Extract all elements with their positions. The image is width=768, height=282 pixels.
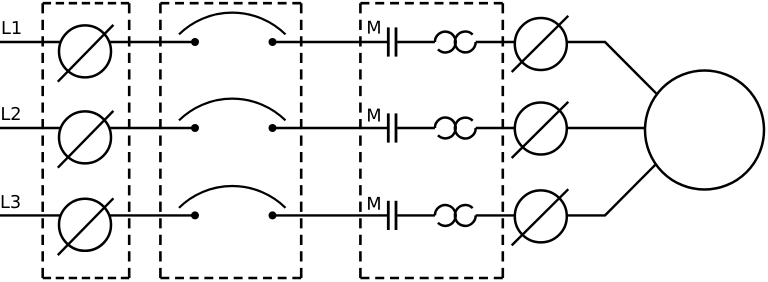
node L1 label bbox=[3, 21, 21, 34]
wire contactor to overload pole 3 bbox=[397, 214, 435, 216]
fuse F2 bbox=[58, 111, 114, 168]
wire contactor to overload pole 2 bbox=[397, 127, 435, 129]
wire overload to meter 2 bbox=[476, 127, 515, 129]
fuse F1 bbox=[58, 25, 114, 82]
motor M1 bbox=[645, 71, 764, 190]
wire breaker to contactor M pole 3 bbox=[276, 214, 387, 216]
overload heater OL pole 1 bbox=[435, 32, 476, 53]
fuse F3 bbox=[58, 198, 114, 255]
contactor contact M pole 2 bbox=[368, 109, 396, 143]
contactor contact M pole 3 bbox=[368, 197, 396, 230]
wire overload to meter 1 bbox=[476, 41, 515, 43]
meter/disconnect circle 3 bbox=[512, 189, 569, 245]
wire breaker to contactor M pole 1 bbox=[276, 41, 387, 43]
wire L3 input bbox=[0, 214, 61, 216]
node L3 label bbox=[2, 195, 20, 208]
wire fuse F1 to breaker bbox=[109, 41, 191, 43]
wire to motor T1 bbox=[567, 42, 657, 94]
wire breaker to contactor M pole 2 bbox=[276, 127, 387, 129]
wire L1 input bbox=[0, 41, 61, 43]
circuit breaker pole 3 bbox=[179, 186, 286, 219]
overload heater OL pole 2 bbox=[435, 118, 476, 139]
overload heater OL pole 3 bbox=[435, 205, 476, 226]
wire to motor T3 bbox=[567, 164, 656, 215]
enclosure starter box (dashed) bbox=[360, 3, 502, 278]
circuit breaker pole 1 bbox=[179, 13, 286, 46]
contactor contact M pole 1 bbox=[368, 21, 396, 57]
wire contactor to overload pole 1 bbox=[397, 41, 435, 43]
circuit breaker pole 2 bbox=[179, 99, 286, 132]
enclosure fuse disconnect box (dashed) bbox=[43, 3, 130, 278]
meter/disconnect circle 1 bbox=[512, 16, 569, 72]
wire L2 input bbox=[0, 127, 61, 129]
node L2 label bbox=[2, 107, 20, 120]
wire fuse F2 to breaker bbox=[109, 127, 191, 129]
wire to motor T2 bbox=[567, 127, 646, 129]
wire fuse F3 to breaker bbox=[109, 214, 191, 216]
enclosure circuit breaker box (dashed) bbox=[160, 3, 301, 278]
wire overload to meter 3 bbox=[476, 214, 515, 216]
meter/disconnect circle 2 bbox=[512, 102, 569, 158]
